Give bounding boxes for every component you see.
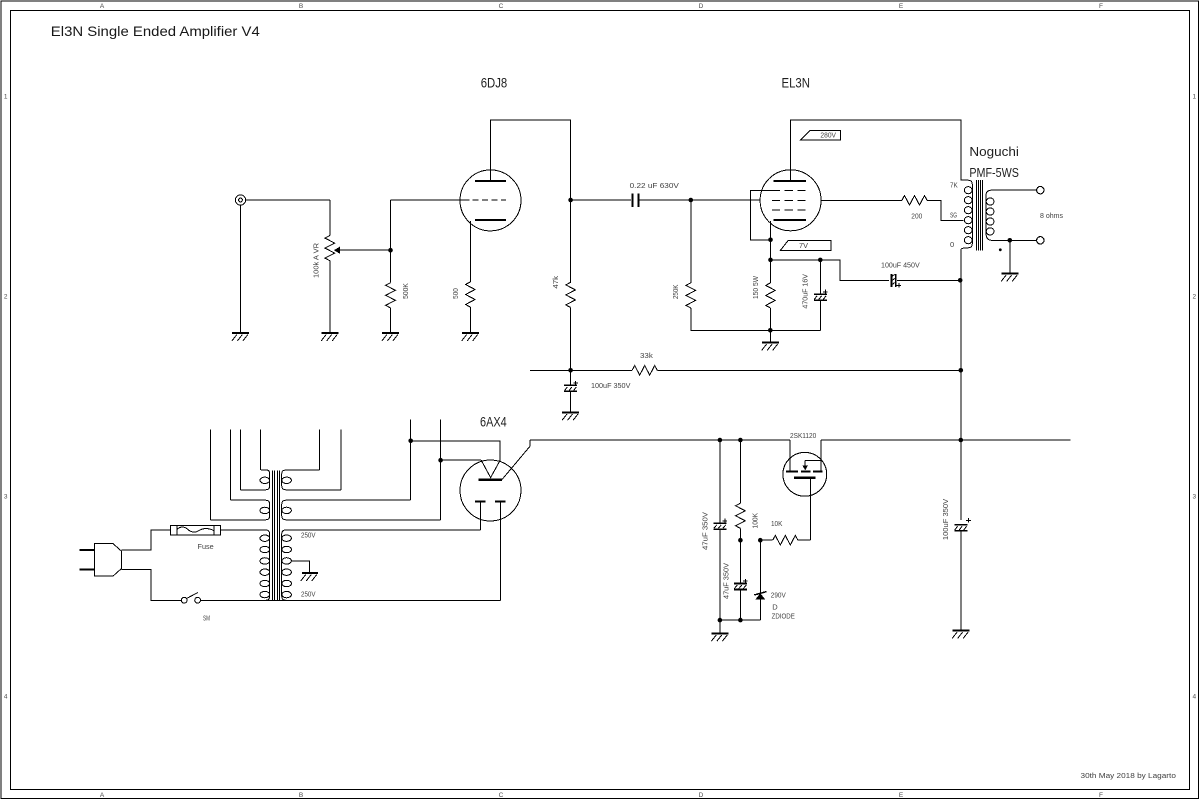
svg-text:Noguchi: Noguchi — [969, 145, 1019, 159]
frame row numbers left — [4, 94, 8, 701]
capacitor 100uF 350V (right) — [954, 518, 971, 630]
wire plug top to fuse — [121, 530, 170, 550]
ground (input jack) — [232, 332, 249, 341]
mains plug — [80, 544, 122, 577]
power transformer right upper winding 1 — [282, 470, 342, 490]
node 33k junction right — [959, 368, 964, 373]
resistor 250K — [690, 200, 692, 283]
svg-text:SG: SG — [950, 210, 957, 219]
node 6AX4 left wire — [438, 458, 443, 463]
6DJ8 grid dashes — [473, 199, 507, 201]
svg-text:33k: 33k — [640, 351, 653, 360]
svg-text:E: E — [899, 792, 904, 799]
drain wire — [789, 440, 791, 471]
frame column letters bottom — [100, 792, 1103, 799]
node 33k/100uF junction — [568, 368, 573, 373]
capacitor 100uF 450V (horizontal) — [891, 274, 961, 288]
resistor 100K — [739, 440, 741, 503]
svg-text:470uF 16V: 470uF 16V — [800, 274, 809, 309]
ground (pot) — [321, 332, 338, 341]
svg-text:7V: 7V — [799, 241, 808, 250]
node rail/100K — [738, 438, 743, 443]
svg-text:30th May 2018 by Lagarto: 30th May 2018 by Lagarto — [1081, 771, 1176, 780]
resistor 10K — [760, 539, 772, 541]
PSU GROUP — [80, 420, 1071, 642]
svg-text:Fuse: Fuse — [198, 542, 214, 551]
power transformer left upper winding 1 — [241, 470, 270, 490]
capacitor 47uF 350V (second) — [734, 540, 748, 620]
EL3N plate bar — [774, 180, 806, 182]
svg-text:100k A VR: 100k A VR — [311, 242, 320, 278]
resistor 200 (to SG) — [821, 199, 902, 201]
svg-text:4: 4 — [1192, 694, 1196, 701]
svg-text:6DJ8: 6DJ8 — [481, 74, 508, 90]
output jack top — [1037, 187, 1044, 194]
wire 6AX4 heater pin right down — [499, 503, 501, 601]
bottom tie line — [720, 619, 760, 621]
svg-text:El3N Single Ended Amplifier V4: El3N Single Ended Amplifier V4 — [51, 23, 260, 39]
zener diode D 290V — [754, 540, 766, 620]
6AX4 heater V — [481, 460, 500, 477]
svg-text:4: 4 — [4, 694, 8, 701]
node cathode bottom rail — [768, 328, 773, 333]
svg-text:500: 500 — [451, 288, 460, 299]
node bottom mid — [738, 618, 743, 623]
svg-text:1: 1 — [1192, 94, 1196, 101]
power transformer right upper winding 2 — [282, 500, 441, 520]
svg-text:250V: 250V — [301, 530, 316, 539]
wire jack to pot top — [246, 199, 330, 201]
wire EL3N cathode down — [770, 221, 772, 260]
svg-text:47uF 350V: 47uF 350V — [721, 563, 730, 599]
ground (secondary) — [1001, 240, 1018, 281]
wire top heater feed — [411, 441, 500, 460]
mosfet bars — [786, 471, 798, 473]
ground (100uF mid) — [562, 411, 579, 420]
OPT core — [977, 180, 983, 250]
svg-text:10K: 10K — [771, 519, 782, 528]
wire 6AX4 output diagonal to rail — [502, 440, 530, 479]
svg-text:E: E — [899, 3, 904, 10]
svg-text:PMF-5WS: PMF-5WS — [969, 166, 1019, 180]
switch SM — [181, 593, 200, 604]
B+ rail right of regulator — [821, 439, 1071, 441]
svg-text:EL3N: EL3N — [782, 74, 811, 90]
pentode U2 EL3N envelope — [760, 170, 821, 231]
svg-text:A: A — [100, 3, 105, 10]
ground (regulator) — [711, 620, 728, 641]
HV center tap to ground — [291, 561, 309, 572]
wire EL3N plate up to OPT — [791, 120, 961, 180]
resistor 500 (6DJ8 cathode) — [469, 221, 471, 282]
svg-text:100uF 350V: 100uF 350V — [591, 381, 630, 390]
svg-text:D: D — [699, 3, 704, 10]
6AX4 plate bar — [479, 479, 503, 481]
6DJ8 plate bar — [475, 180, 506, 182]
svg-text:250V: 250V — [301, 589, 316, 598]
node secondary ground junction — [1008, 238, 1013, 243]
B+ rail left of regulator — [530, 439, 790, 441]
svg-text:47k: 47k — [551, 276, 560, 289]
regulator Q1 2SK1120 envelope — [783, 452, 827, 496]
svg-text:1: 1 — [4, 94, 8, 101]
capacitor 47uF 350V (first) — [713, 440, 727, 620]
svg-text:C: C — [499, 792, 504, 799]
power transformer core — [273, 470, 280, 601]
ground (500) — [462, 332, 479, 341]
svg-text:2: 2 — [4, 294, 8, 301]
frame row numbers right — [1192, 94, 1196, 701]
wire cathode node to 470uF and down-right — [771, 260, 890, 280]
wire 6DJ8 plate up and over to 47k node — [491, 120, 571, 200]
svg-text:280V: 280V — [820, 131, 836, 140]
wire wiper node up to grid line — [390, 200, 392, 250]
svg-text:F: F — [1099, 792, 1103, 799]
svg-text:0.22 uF 630V: 0.22 uF 630V — [630, 181, 679, 190]
frame column letters top — [100, 3, 1103, 10]
resistor 500K — [390, 250, 392, 283]
wire switch to bottom line — [201, 599, 501, 601]
svg-text:100uF 350V: 100uF 350V — [941, 499, 950, 540]
svg-text:290V: 290V — [771, 591, 786, 600]
node plate/47k/cap junction — [568, 198, 573, 203]
svg-text:F: F — [1099, 3, 1103, 10]
svg-text:D: D — [772, 603, 778, 612]
node wiper junction — [388, 248, 393, 253]
svg-text:150 5W: 150 5W — [751, 275, 760, 299]
fuse — [171, 526, 221, 535]
ground (HV center tap) — [301, 572, 318, 581]
svg-text:B: B — [299, 3, 303, 10]
output jack bottom — [1037, 237, 1044, 244]
capacitor C1 0.22uF 630V — [571, 199, 632, 201]
6DJ8 cathode bar — [475, 219, 506, 221]
svg-text:3: 3 — [1192, 494, 1196, 501]
ground (EL3N cathode) — [762, 330, 779, 350]
svg-text:250K: 250K — [671, 285, 680, 300]
node 100K/10K — [738, 538, 743, 543]
svg-text:47uF 350V: 47uF 350V — [701, 512, 710, 550]
wire left heater feed — [441, 459, 482, 461]
svg-text:200: 200 — [911, 212, 922, 221]
EL3N g1 dashes — [772, 199, 810, 201]
triode U1 6DJ8 envelope — [460, 170, 521, 231]
node rail junction right — [959, 438, 964, 443]
capacitor 470uF 16V — [814, 260, 828, 330]
MAIN SCHEMATIC — [232, 120, 1044, 638]
potentiometer 100k A VR — [329, 200, 331, 236]
phase dot — [999, 248, 1002, 251]
node bottom left — [718, 618, 723, 623]
svg-text:ZDIODE: ZDIODE — [772, 612, 795, 621]
ground (500K) — [382, 332, 399, 341]
svg-text:100K: 100K — [750, 513, 759, 529]
capacitor 100uF 350V (mid) — [564, 370, 578, 412]
svg-text:500K: 500K — [401, 283, 410, 299]
node coupling cap / 250K / EL3N grid — [689, 198, 694, 203]
pot wiper arrow — [334, 247, 340, 254]
input jack J1 — [235, 195, 245, 205]
node 100uF450V to OPT 0 — [958, 278, 963, 283]
OPT primary winding — [961, 180, 973, 280]
wire EL3N grid from cap node — [691, 199, 761, 201]
node 10K/zener — [758, 538, 763, 543]
resistor 47k — [570, 200, 572, 282]
rectifier V3 6AX4 envelope — [460, 460, 521, 521]
EL3N g3 dashes — [772, 190, 806, 192]
node cathode net — [768, 258, 773, 263]
node 6AX4 top wire — [408, 439, 413, 444]
resistor 33k — [632, 366, 657, 376]
svg-text:0: 0 — [950, 240, 954, 249]
wire 33k line — [530, 369, 632, 371]
wire g3 tie to cathode — [751, 191, 772, 240]
ground (100uF right) — [952, 629, 969, 638]
EL3N g2 dashes — [772, 209, 806, 211]
node 470uF top — [818, 258, 823, 263]
svg-text:2: 2 — [1192, 294, 1196, 301]
svg-text:8 ohms: 8 ohms — [1040, 211, 1063, 220]
svg-text:100uF 450V: 100uF 450V — [881, 261, 920, 270]
svg-text:A: A — [100, 792, 105, 799]
wire jack stem to ground — [240, 205, 242, 333]
svg-text:7K: 7K — [950, 181, 958, 190]
gate lead — [809, 479, 811, 540]
node rail/47uF — [718, 438, 723, 443]
svg-text:2SK1120: 2SK1120 — [790, 431, 816, 440]
wire plug bottom to switch — [121, 570, 181, 601]
node g3/cathode — [768, 238, 773, 243]
resistor 150 5W — [770, 260, 772, 283]
svg-text:3: 3 — [4, 494, 8, 501]
OPT secondary winding — [986, 190, 1037, 240]
6AX4 heater-cathode bars — [475, 500, 486, 502]
power transformer left upper winding 2 — [210, 500, 269, 520]
svg-text:D: D — [699, 792, 704, 799]
flag 280V — [801, 130, 841, 139]
svg-text:6AX4: 6AX4 — [480, 415, 507, 430]
wire grid line to 6DJ8 — [391, 199, 470, 201]
wire B+ 0-tap vertical — [960, 280, 962, 520]
power transformer primary winding — [220, 530, 269, 600]
flag 7V — [780, 241, 831, 251]
svg-text:SM: SM — [203, 614, 210, 623]
wire 6AX4 cathode pin to 250V tap — [479, 503, 481, 530]
svg-text:B: B — [299, 792, 303, 799]
svg-text:C: C — [499, 3, 504, 10]
source wire — [820, 440, 822, 471]
body connection with arrow — [804, 460, 806, 465]
power transformer HV secondary winding — [282, 530, 481, 600]
heater lead wires — [209, 430, 211, 520]
EL3N cathode bar — [774, 219, 806, 221]
